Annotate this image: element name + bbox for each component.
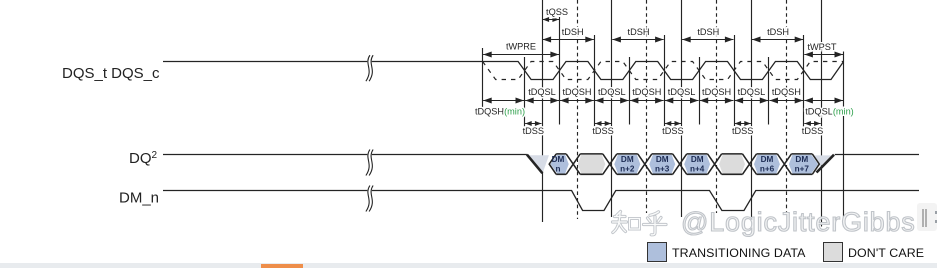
- watermark 乎 glyph: [644, 212, 667, 235]
- svg-text:DQ2: DQ2: [129, 150, 158, 167]
- svg-text:tDSH: tDSH: [628, 27, 650, 37]
- break mark DQ: [368, 150, 372, 176]
- tWPST dimension: [804, 54, 843, 56]
- DQ funnel open: [527, 155, 549, 172]
- DM_n waveform: [163, 191, 919, 211]
- svg-text:DM: DM: [552, 155, 565, 164]
- svg-text:tDQSL: tDQSL: [598, 87, 626, 97]
- svg-text:tDQSL: tDQSL: [668, 87, 696, 97]
- legend: don't care: [823, 242, 843, 262]
- svg-text:DQS_t DQS_c: DQS_t DQS_c: [62, 65, 160, 82]
- svg-text:tDSS: tDSS: [592, 126, 613, 136]
- break mark DQS: [368, 55, 372, 81]
- watermark: [681, 207, 916, 238]
- svg-text:n+3: n+3: [655, 165, 670, 174]
- svg-text:DM: DM: [691, 155, 704, 164]
- tQSS dimension: [543, 19, 560, 21]
- svg-text:DM: DM: [621, 155, 634, 164]
- svg-text:tDSS: tDSS: [732, 126, 753, 136]
- svg-text:n+7: n+7: [795, 165, 810, 174]
- svg-text:tDQSH(min): tDQSH(min): [475, 107, 525, 117]
- svg-text:n+6: n+6: [760, 165, 775, 174]
- bottom progress bar: [0, 263, 937, 268]
- svg-text:DM: DM: [656, 155, 669, 164]
- svg-text:DM_n: DM_n: [119, 190, 159, 207]
- side widget: [917, 203, 937, 231]
- svg-text:tDQSH: tDQSH: [632, 87, 661, 97]
- DQ data bubbles: [550, 155, 568, 174]
- DQS_c dashed waveform: [483, 62, 844, 80]
- watermark 知 glyph: [613, 212, 640, 233]
- svg-text:n+2: n+2: [620, 165, 635, 174]
- tDSS dimensions: [525, 123, 541, 125]
- DQS_t solid waveform: [163, 62, 844, 80]
- svg-text:tDQSH: tDQSH: [702, 87, 731, 97]
- DQ idle rail left: [163, 154, 527, 156]
- svg-text:tWPRE: tWPRE: [506, 42, 536, 52]
- svg-text:tDQSH: tDQSH: [562, 87, 591, 97]
- svg-text:DM: DM: [795, 155, 808, 164]
- svg-text:tDSS: tDSS: [662, 126, 683, 136]
- svg-text:tDSH: tDSH: [767, 27, 789, 37]
- DQ funnel close: [817, 155, 835, 173]
- DQ rail right: [835, 154, 919, 156]
- svg-text:tQSS: tQSS: [546, 7, 568, 17]
- tWPRE dimension: [483, 54, 559, 56]
- svg-text:tDSH: tDSH: [697, 27, 719, 37]
- svg-text:tDQSL: tDQSL: [738, 87, 766, 97]
- break mark DM: [368, 186, 372, 212]
- svg-text:DM: DM: [761, 155, 774, 164]
- tDQSH/tDQSL dimension chain: [483, 100, 524, 102]
- svg-text:tDSS: tDSS: [802, 126, 823, 136]
- svg-text:tDQSL(min): tDQSL(min): [805, 107, 854, 117]
- svg-text:tWPST: tWPST: [807, 42, 836, 52]
- svg-text:n: n: [555, 165, 560, 174]
- legend: transitioning data: [647, 242, 667, 262]
- tDSH dimensions: [543, 39, 594, 41]
- svg-text:tDQSL: tDQSL: [528, 87, 556, 97]
- svg-text:tDSH: tDSH: [562, 27, 584, 37]
- svg-text:tDQSH: tDQSH: [772, 87, 801, 97]
- clock-edge marker vertical lines: [482, 48, 484, 107]
- svg-text:n+4: n+4: [690, 165, 705, 174]
- svg-text:tDSS: tDSS: [523, 126, 544, 136]
